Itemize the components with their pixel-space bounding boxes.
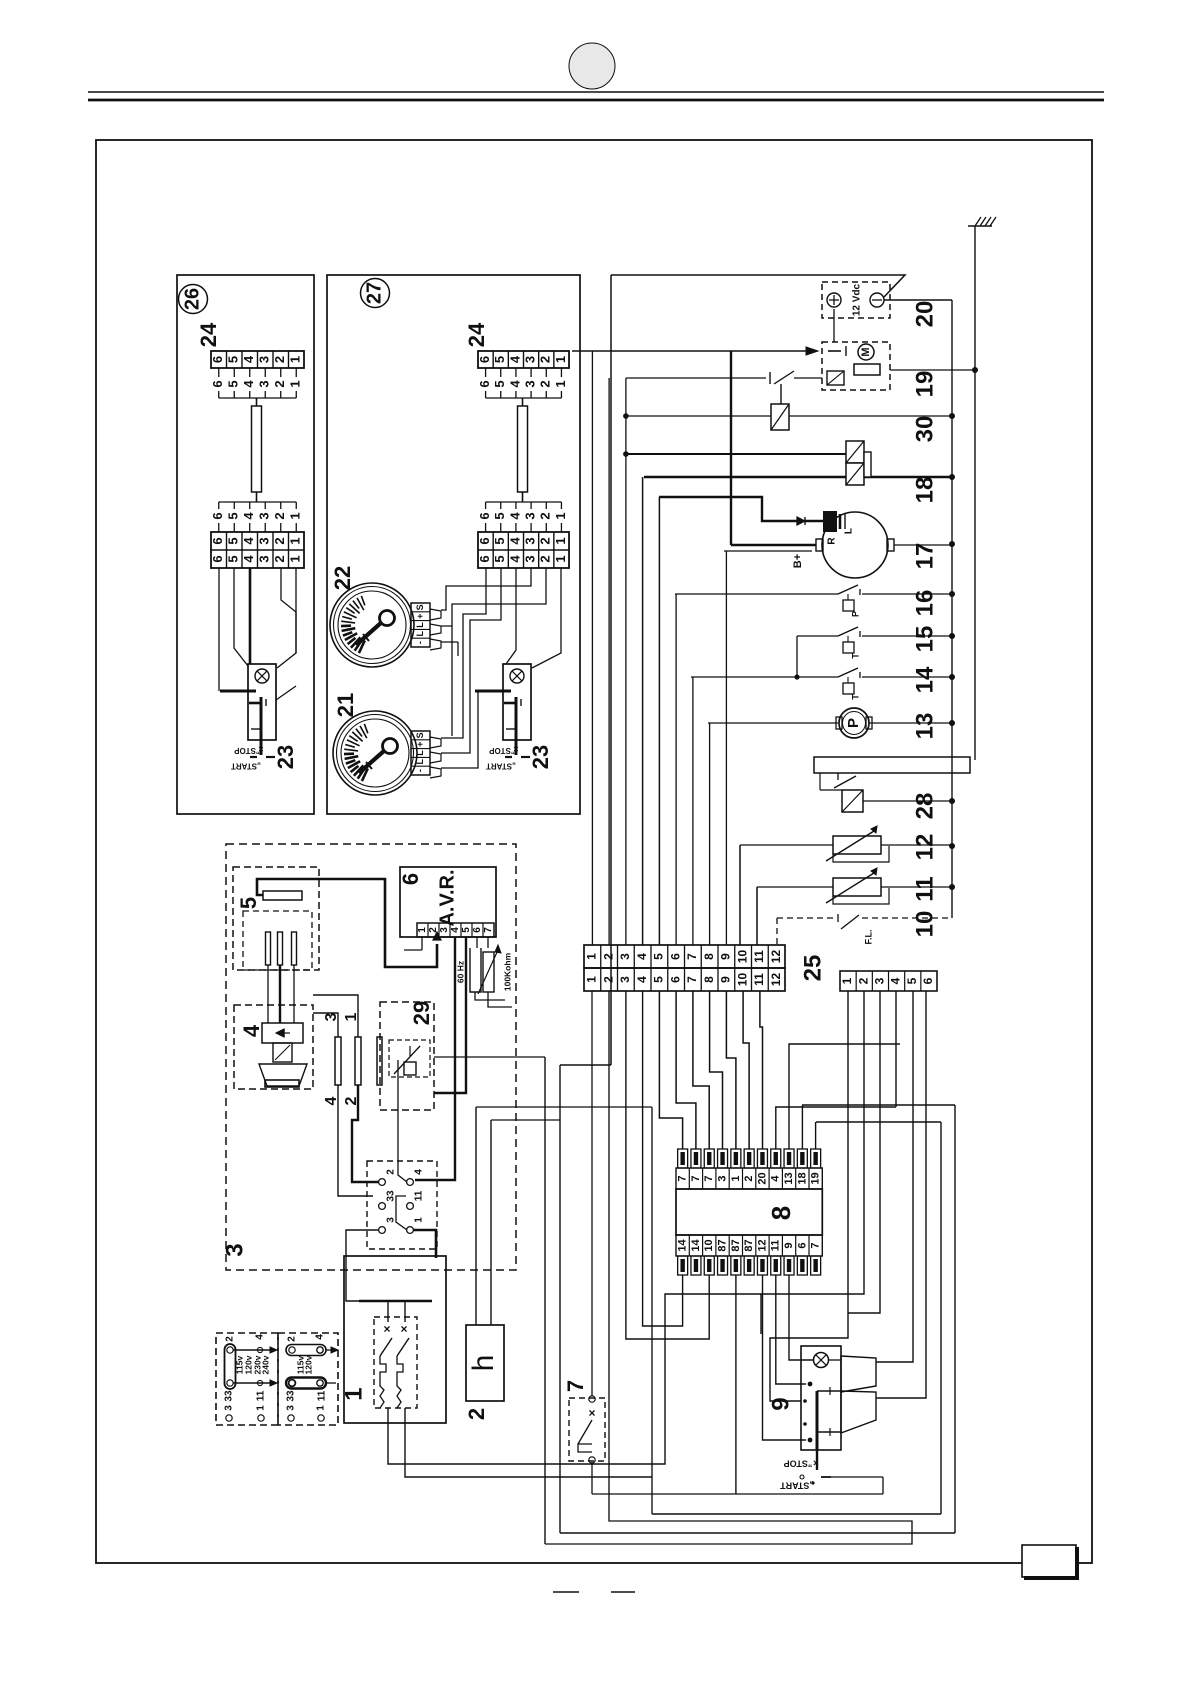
svg-text:3: 3 (257, 555, 272, 562)
svg-text:L: L (415, 631, 425, 637)
svg-text:S: S (415, 732, 425, 738)
svg-text:30: 30 (911, 416, 938, 443)
svg-text:1: 1 (288, 555, 303, 562)
svg-text:L: L (415, 759, 425, 765)
svg-text:3: 3 (386, 1217, 397, 1223)
svg-text:1: 1 (288, 512, 303, 519)
svg-text:4: 4 (241, 380, 256, 388)
svg-text:2: 2 (538, 512, 553, 519)
svg-text:4: 4 (450, 927, 461, 933)
svg-text:R: R (827, 537, 838, 545)
svg-text:7: 7 (810, 1242, 822, 1248)
svg-text:-: - (415, 641, 425, 644)
svg-text:6: 6 (477, 356, 492, 363)
svg-text:L: L (415, 750, 425, 756)
svg-text:3: 3 (618, 976, 632, 983)
svg-text:1: 1 (316, 1405, 327, 1411)
svg-text:87: 87 (716, 1239, 728, 1251)
svg-text:14: 14 (911, 666, 938, 693)
svg-text:7: 7 (703, 1175, 715, 1181)
svg-text:60 Hz: 60 Hz (455, 961, 465, 983)
svg-text:2: 2 (272, 356, 287, 363)
svg-text:8: 8 (702, 976, 716, 983)
svg-text:12 Vdc: 12 Vdc (852, 283, 863, 316)
svg-text:5: 5 (226, 380, 241, 387)
svg-text:+: + (415, 614, 425, 619)
svg-text:-: - (415, 769, 425, 772)
svg-text:4: 4 (507, 555, 522, 563)
svg-text:6: 6 (796, 1242, 808, 1248)
svg-text:33: 33 (286, 1390, 297, 1402)
svg-text:3: 3 (523, 555, 538, 562)
svg-text:6: 6 (210, 555, 225, 562)
svg-text:2: 2 (601, 953, 615, 960)
svg-text:1: 1 (288, 380, 303, 387)
svg-text:6: 6 (477, 555, 492, 562)
svg-text:20: 20 (756, 1172, 768, 1184)
svg-text:18: 18 (911, 477, 938, 504)
svg-text:×: × (813, 1456, 819, 1467)
svg-text:M: M (860, 347, 872, 356)
svg-text:2: 2 (272, 555, 287, 562)
svg-text:5: 5 (461, 927, 472, 933)
svg-text:1: 1 (553, 512, 568, 519)
svg-text:9: 9 (719, 953, 733, 960)
svg-text:1: 1 (340, 1387, 367, 1400)
svg-text:1: 1 (288, 537, 303, 544)
svg-text:6: 6 (668, 976, 682, 983)
svg-text:4: 4 (241, 512, 256, 520)
svg-text:5: 5 (905, 977, 919, 984)
svg-text:4: 4 (889, 977, 903, 984)
svg-text:4: 4 (507, 537, 522, 545)
svg-text:3: 3 (618, 953, 632, 960)
svg-text:5: 5 (492, 555, 507, 562)
svg-text:6: 6 (668, 953, 682, 960)
svg-text:4: 4 (414, 1169, 425, 1175)
svg-text:6: 6 (921, 977, 935, 984)
svg-text:3: 3 (439, 927, 450, 933)
svg-text:„START: „START (231, 761, 261, 770)
svg-text:6: 6 (210, 537, 225, 544)
svg-text:16: 16 (911, 590, 938, 617)
svg-text:9: 9 (783, 1242, 795, 1248)
svg-text:×: × (383, 1322, 390, 1336)
svg-text:20: 20 (911, 301, 938, 328)
svg-text:3: 3 (286, 1405, 297, 1411)
svg-text:8: 8 (766, 1206, 796, 1220)
svg-text:15: 15 (911, 626, 938, 653)
svg-text:12: 12 (769, 973, 783, 987)
svg-text:5: 5 (226, 555, 241, 562)
svg-text:L: L (844, 528, 855, 534)
svg-text:h: h (467, 1355, 500, 1372)
svg-text:87: 87 (743, 1239, 755, 1251)
svg-text:13: 13 (911, 713, 938, 740)
svg-text:11: 11 (752, 950, 766, 963)
svg-text:2: 2 (272, 537, 287, 544)
svg-text:2: 2 (287, 1336, 298, 1342)
svg-text:12: 12 (911, 834, 938, 861)
svg-text:4: 4 (507, 355, 522, 363)
svg-text:3: 3 (523, 537, 538, 544)
svg-text:7: 7 (483, 927, 494, 933)
svg-text:3: 3 (523, 356, 538, 363)
svg-text:1: 1 (417, 927, 428, 933)
svg-text:5: 5 (492, 380, 507, 387)
svg-text:5: 5 (236, 897, 261, 909)
svg-text:4: 4 (770, 1175, 782, 1182)
svg-text:8: 8 (702, 953, 716, 960)
svg-text:6: 6 (210, 512, 225, 519)
svg-text:24: 24 (196, 322, 221, 347)
svg-text:87: 87 (730, 1239, 742, 1251)
svg-text:2: 2 (386, 1169, 397, 1175)
svg-text:10: 10 (703, 1239, 715, 1251)
svg-text:11: 11 (317, 1390, 328, 1401)
svg-text:240v: 240v (260, 1355, 270, 1374)
svg-text:120v: 120v (303, 1355, 313, 1374)
svg-text:1: 1 (730, 1175, 742, 1181)
svg-text:10: 10 (735, 973, 749, 987)
svg-text:3: 3 (221, 1243, 248, 1256)
svg-text:1: 1 (553, 537, 568, 544)
svg-text:4: 4 (241, 355, 256, 363)
svg-text:12: 12 (756, 1239, 768, 1251)
svg-text:25: 25 (799, 955, 826, 982)
svg-text:×: × (400, 1322, 407, 1336)
svg-text:11: 11 (414, 1190, 425, 1201)
svg-text:22: 22 (330, 566, 355, 590)
svg-text:6: 6 (210, 356, 225, 363)
svg-text:1: 1 (840, 977, 854, 984)
svg-text:P: P (845, 718, 862, 728)
svg-text:3: 3 (257, 356, 272, 363)
svg-text:5: 5 (652, 976, 666, 983)
svg-text:4: 4 (507, 512, 522, 520)
svg-text:19: 19 (911, 371, 938, 398)
svg-text:2: 2 (538, 537, 553, 544)
svg-text:6: 6 (472, 927, 483, 933)
svg-text:9: 9 (767, 1397, 794, 1410)
svg-text:100Kohm: 100Kohm (502, 952, 512, 991)
svg-text:+: + (415, 742, 425, 747)
svg-text:1: 1 (553, 356, 568, 363)
svg-text:L: L (415, 622, 425, 628)
svg-text:33: 33 (224, 1390, 235, 1402)
svg-text:1: 1 (553, 555, 568, 562)
svg-text:1: 1 (553, 380, 568, 387)
svg-text:3: 3 (257, 380, 272, 387)
svg-text:6: 6 (477, 537, 492, 544)
svg-text:2: 2 (601, 976, 615, 983)
svg-text:5: 5 (492, 512, 507, 519)
svg-text:21: 21 (333, 693, 358, 717)
svg-text:2: 2 (428, 927, 439, 933)
svg-text:„START: „START (780, 1481, 814, 1491)
svg-text:13: 13 (783, 1172, 795, 1184)
svg-text:2: 2 (272, 380, 287, 387)
svg-text:33: 33 (386, 1190, 397, 1202)
svg-text:„START: „START (486, 761, 516, 770)
svg-text:7: 7 (685, 953, 699, 960)
svg-text:4: 4 (507, 380, 522, 388)
svg-text:A.V.R.: A.V.R. (436, 869, 458, 926)
svg-text:2: 2 (856, 977, 870, 984)
svg-text:10: 10 (735, 950, 749, 964)
svg-text:1: 1 (585, 953, 599, 960)
svg-text:5: 5 (226, 537, 241, 544)
svg-text:T: T (850, 694, 860, 700)
svg-text:S: S (415, 604, 425, 610)
svg-text:4: 4 (255, 1334, 266, 1340)
svg-text:5: 5 (492, 537, 507, 544)
svg-text:4: 4 (635, 976, 649, 983)
svg-text:27: 27 (363, 282, 385, 304)
svg-text:F.L.: F.L. (863, 930, 873, 945)
svg-text:6: 6 (210, 380, 225, 387)
svg-text:7: 7 (690, 1175, 702, 1181)
svg-text:7: 7 (563, 1380, 588, 1392)
svg-text:5: 5 (492, 356, 507, 363)
svg-text:3: 3 (257, 537, 272, 544)
svg-text:2: 2 (272, 512, 287, 519)
svg-text:4: 4 (239, 1024, 264, 1037)
svg-text:11: 11 (256, 1390, 267, 1401)
svg-text:5: 5 (652, 953, 666, 960)
svg-text:2: 2 (538, 356, 553, 363)
svg-text:2: 2 (225, 1336, 236, 1342)
svg-text:3: 3 (224, 1405, 235, 1411)
svg-text:19: 19 (810, 1172, 822, 1184)
svg-text:17: 17 (911, 543, 938, 570)
svg-text:29: 29 (409, 1001, 434, 1025)
svg-text:14: 14 (690, 1239, 702, 1252)
svg-text:11: 11 (770, 1240, 782, 1252)
svg-text:6: 6 (477, 380, 492, 387)
svg-text:7: 7 (677, 1175, 689, 1181)
svg-text:×: × (588, 1406, 595, 1420)
svg-text:28: 28 (911, 793, 938, 820)
svg-text:2: 2 (743, 1175, 755, 1181)
svg-text:”STOP: ”STOP (784, 1459, 813, 1469)
svg-text:14: 14 (677, 1239, 689, 1252)
svg-text:24: 24 (464, 322, 489, 347)
svg-text:3: 3 (873, 977, 887, 984)
svg-text:6: 6 (477, 512, 492, 519)
svg-text:1: 1 (585, 976, 599, 983)
svg-text:4: 4 (635, 953, 649, 960)
svg-text:26: 26 (181, 288, 203, 310)
svg-text:2: 2 (538, 555, 553, 562)
svg-text:3: 3 (523, 380, 538, 387)
svg-text:18: 18 (796, 1172, 808, 1184)
svg-text:4: 4 (241, 555, 256, 563)
svg-text:”STOP: ”STOP (489, 746, 515, 755)
svg-text:P: P (850, 611, 860, 617)
svg-text:7: 7 (685, 976, 699, 983)
svg-text:3: 3 (716, 1175, 728, 1181)
svg-text:3: 3 (523, 512, 538, 519)
svg-text:”STOP: ”STOP (234, 746, 260, 755)
svg-text:1: 1 (256, 1405, 267, 1411)
svg-text:6: 6 (398, 873, 423, 885)
svg-text:11: 11 (752, 973, 766, 986)
svg-text:10: 10 (911, 911, 938, 938)
svg-text:11: 11 (911, 876, 938, 901)
svg-text:5: 5 (226, 512, 241, 519)
svg-text:12: 12 (769, 950, 783, 964)
svg-text:9: 9 (719, 976, 733, 983)
svg-text:2: 2 (464, 1408, 489, 1420)
svg-text:1: 1 (288, 356, 303, 363)
svg-text:4: 4 (315, 1334, 326, 1340)
svg-text:23: 23 (273, 745, 298, 769)
svg-text:4: 4 (241, 537, 256, 545)
svg-text:3: 3 (257, 512, 272, 519)
svg-text:T: T (850, 653, 860, 659)
svg-text:1: 1 (414, 1217, 425, 1223)
svg-text:2: 2 (538, 380, 553, 387)
svg-text:5: 5 (226, 356, 241, 363)
svg-text:B+: B+ (792, 554, 804, 568)
svg-text:23: 23 (528, 745, 553, 769)
